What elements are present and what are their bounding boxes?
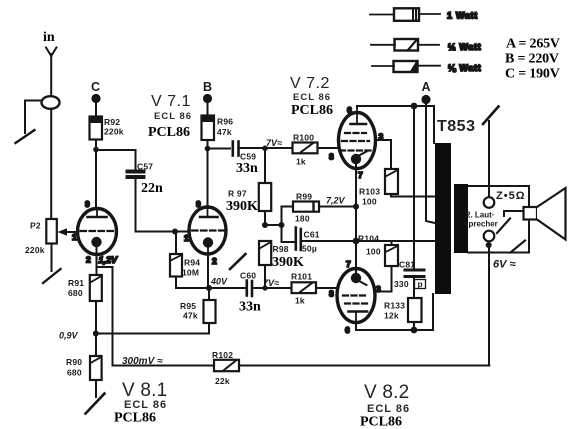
wire speaker contact stub	[504, 211, 524, 216]
junction R97/R98 node	[262, 222, 268, 228]
wire V8.1 cathode node	[96, 255, 98, 276]
switch arm (speaker bottom)	[511, 241, 526, 253]
pentode V7.2	[339, 107, 376, 169]
resistor R98	[259, 241, 271, 288]
resistor R102	[214, 360, 239, 371]
wire R90 to ground	[95, 380, 97, 397]
legend resistor 1/2 Watt	[371, 39, 439, 51]
resistor R95	[204, 288, 216, 334]
wire junction to C59	[208, 148, 231, 150]
svg-text:R99: R99	[296, 192, 312, 202]
svg-text:2: 2	[212, 256, 217, 266]
wire R96 to V7.1 anode	[207, 140, 209, 208]
wire A centre tap	[426, 103, 435, 223]
svg-text:R96: R96	[217, 117, 233, 127]
wire C60 to R101	[253, 287, 292, 289]
junction R98 rail node	[262, 285, 267, 290]
switch arm (speaker top)	[497, 219, 510, 234]
wire R101 to V8.2 pin 8	[316, 287, 338, 289]
capacitor C59	[233, 142, 239, 156]
capacitor C61	[282, 225, 357, 250]
speaker	[524, 188, 566, 240]
wire node C to R92	[95, 102, 97, 117]
svg-text:180: 180	[295, 214, 310, 224]
wire R102 to secondary feedback	[239, 365, 489, 367]
svg-text:C = 190V: C = 190V	[505, 67, 560, 82]
svg-text:47k: 47k	[183, 311, 198, 321]
svg-text:R101: R101	[291, 272, 312, 282]
wire speaker box right top	[528, 186, 530, 208]
wire V7.2 cathode chain	[355, 169, 357, 270]
resistor R103	[385, 169, 398, 194]
svg-text:C61: C61	[304, 230, 320, 240]
wire secondary top to terminal	[468, 186, 489, 197]
resistor R92	[90, 117, 103, 140]
svg-text:ECL 86: ECL 86	[367, 403, 410, 415]
switch (output top)	[483, 107, 499, 187]
svg-text:½ Watt: ½ Watt	[448, 42, 481, 52]
svg-text:C81: C81	[399, 260, 415, 270]
wire node to R99/C61 branch	[265, 224, 282, 226]
svg-text:9: 9	[196, 199, 201, 209]
svg-text:330: 330	[394, 279, 409, 289]
svg-text:B: B	[203, 80, 212, 94]
junction V7.1 cathode rail	[206, 285, 212, 291]
triode V8.1	[78, 209, 117, 255]
terminal 2. Lautsprecher	[484, 231, 495, 242]
svg-text:100: 100	[362, 197, 377, 207]
svg-text:1k: 1k	[295, 296, 305, 306]
svg-text:C57: C57	[137, 162, 153, 172]
svg-text:22k: 22k	[215, 376, 230, 386]
node B	[203, 94, 212, 103]
wire junction to C57	[96, 150, 136, 170]
junction R97 top node	[262, 146, 268, 152]
svg-text:R92: R92	[104, 117, 120, 127]
svg-text:9: 9	[85, 199, 90, 209]
svg-text:A = 265V: A = 265V	[506, 37, 560, 52]
svg-text:680: 680	[67, 368, 82, 378]
svg-text:R95: R95	[180, 301, 196, 311]
resistor R133	[408, 298, 422, 330]
svg-text:0,9V: 0,9V	[59, 331, 79, 341]
svg-text:6: 6	[347, 105, 352, 115]
ground (R90)	[86, 394, 105, 414]
svg-text:10M: 10M	[182, 268, 199, 278]
wire V7.2 pin3 to R103	[376, 140, 392, 169]
junction below R92	[93, 147, 99, 153]
capacitor C60	[247, 281, 252, 297]
junction 7,2V node	[353, 204, 359, 210]
svg-text:1,2V: 1,2V	[99, 255, 119, 265]
svg-text:PCL86: PCL86	[114, 411, 156, 426]
svg-text:C59: C59	[240, 152, 256, 162]
svg-text:PCL86: PCL86	[148, 125, 190, 140]
wire speaker box right bottom	[528, 220, 530, 253]
svg-text:V 8.2: V 8.2	[364, 382, 409, 403]
wire C81 branch	[413, 106, 415, 269]
svg-text:Z•5Ω: Z•5Ω	[496, 190, 526, 202]
svg-text:sprecher: sprecher	[464, 220, 498, 229]
svg-text:V 8.1: V 8.1	[122, 380, 167, 401]
svg-text:8: 8	[329, 289, 334, 299]
wire R104 to V8.2 pin 3	[375, 266, 392, 292]
svg-text:1: 1	[184, 233, 189, 243]
svg-text:7: 7	[346, 259, 351, 269]
svg-text:1 Watt: 1 Watt	[447, 11, 478, 21]
capacitor C57	[126, 170, 146, 180]
capacitor C81	[405, 270, 424, 298]
legend resistor 1/8 Watt	[372, 61, 440, 72]
junction R133 bottom node	[411, 327, 418, 334]
svg-text:40V: 40V	[210, 277, 228, 287]
resistor R94	[170, 232, 182, 277]
wire feedback drop	[488, 253, 490, 366]
svg-text:PCL86: PCL86	[291, 103, 333, 118]
svg-text:390K: 390K	[226, 199, 258, 214]
legend resistor 1 Watt	[370, 8, 440, 20]
svg-text:8: 8	[329, 152, 334, 162]
svg-text:33n: 33n	[236, 161, 258, 176]
svg-text:7: 7	[358, 170, 363, 180]
svg-text:V 7.1: V 7.1	[151, 93, 191, 110]
node C	[91, 94, 100, 103]
wire 0,9V node to R95	[96, 333, 209, 335]
wire P2 bottom	[51, 244, 53, 272]
transformer T853 primary	[435, 143, 451, 294]
svg-text:6: 6	[345, 325, 350, 335]
wire jack sleeve	[25, 101, 42, 134]
svg-text:390K: 390K	[272, 255, 304, 270]
svg-text:47k: 47k	[217, 127, 232, 137]
junction branch node	[279, 222, 285, 228]
svg-text:R104: R104	[358, 234, 379, 244]
svg-text:1k: 1k	[296, 157, 306, 167]
svg-text:220k: 220k	[25, 245, 45, 255]
svg-text:2. Laut·: 2. Laut·	[466, 211, 494, 220]
svg-text:R91: R91	[68, 278, 84, 288]
wire C61 node to primary tap (R104 top)	[356, 240, 435, 242]
svg-text:33n: 33n	[239, 300, 261, 315]
resistor R91	[90, 275, 102, 301]
resistor R104	[385, 241, 398, 266]
svg-text:⅛ Watt: ⅛ Watt	[448, 63, 481, 73]
svg-text:50µ: 50µ	[302, 244, 317, 254]
ground (P2)	[43, 269, 61, 283]
wire V8.2 anode to primary bottom	[356, 294, 433, 330]
jack input socket	[42, 96, 60, 109]
svg-text:V 7.2: V 7.2	[290, 75, 330, 92]
ground slash near 40V	[230, 254, 246, 269]
resistor R99	[282, 202, 357, 226]
wire R91 to R90	[95, 301, 97, 356]
junction 0,9V node	[93, 331, 99, 337]
svg-text:R102: R102	[212, 350, 233, 360]
svg-text:3: 3	[376, 284, 381, 294]
svg-text:7V≈: 7V≈	[266, 138, 282, 148]
wire R94 to 40V rail	[176, 277, 209, 289]
svg-text:22n: 22n	[141, 181, 163, 196]
svg-text:7V≈: 7V≈	[263, 278, 279, 288]
svg-text:in: in	[43, 30, 55, 45]
wire R103 to primary tap	[391, 194, 435, 197]
wire grid node to V7.1 pin 1	[175, 231, 190, 233]
svg-text:R90: R90	[66, 357, 82, 367]
value p (C81)	[415, 279, 426, 289]
svg-text:B = 220V: B = 220V	[505, 52, 559, 67]
svg-text:680: 680	[68, 288, 83, 298]
svg-text:R98: R98	[273, 244, 289, 254]
junction C81 top node	[411, 103, 418, 110]
node A	[421, 95, 430, 104]
svg-text:R100: R100	[293, 133, 314, 143]
wire anode rail V7.2 to transformer	[357, 106, 434, 143]
svg-text:C: C	[91, 80, 100, 94]
terminal Z 5ohm	[484, 197, 495, 208]
svg-text:PCL86: PCL86	[360, 415, 402, 429]
svg-text:A: A	[422, 80, 431, 94]
wire R92 to V8.1 anode	[95, 140, 97, 210]
svg-text:300mV ≈: 300mV ≈	[122, 356, 163, 367]
svg-text:ECL 86: ECL 86	[293, 92, 331, 103]
svg-text:R133: R133	[384, 301, 405, 311]
potentiometer P2	[46, 219, 77, 244]
wire input lead-in	[46, 48, 56, 97]
junction cathode/C61 node	[353, 238, 360, 245]
wire 40V rail	[209, 287, 245, 289]
svg-text:12k: 12k	[384, 311, 399, 321]
wire jack tip to P2	[50, 109, 52, 219]
svg-text:2: 2	[86, 255, 91, 265]
wire terminal bottom stub	[488, 242, 490, 253]
pentode V8.2	[337, 269, 375, 323]
svg-text:ECL 86: ECL 86	[124, 399, 167, 411]
wire R100 to V7.2 pin 8	[318, 147, 341, 149]
resistor R101	[292, 282, 317, 293]
ground (input sleeve)	[16, 130, 35, 143]
wire secondary top extension	[489, 185, 529, 187]
svg-text:R103: R103	[359, 187, 380, 197]
wire feedback from cathode to R102	[97, 267, 215, 366]
resistor R96	[202, 116, 215, 141]
svg-text:C60: C60	[240, 271, 256, 281]
svg-text:1: 1	[72, 232, 77, 242]
svg-text:6V ≈: 6V ≈	[493, 259, 516, 271]
svg-text:p: p	[418, 279, 423, 289]
svg-text:P2: P2	[30, 221, 41, 231]
wire C59 to R100	[240, 147, 292, 149]
wire V7.1 cathode to rail	[207, 254, 209, 288]
wire C57 to V7.1 grid	[136, 179, 175, 232]
wire node B to R96	[207, 102, 209, 116]
junction below terminal	[486, 242, 492, 248]
svg-text:T853: T853	[437, 118, 475, 135]
svg-text:ECL 86: ECL 86	[154, 111, 192, 122]
wire secondary bottom	[468, 252, 529, 254]
resistor R90	[90, 356, 102, 380]
svg-text:R94: R94	[184, 258, 200, 268]
resistor R100	[293, 143, 318, 154]
svg-text:100: 100	[366, 247, 381, 257]
transformer T853 secondary	[454, 184, 468, 253]
svg-text:7,2V: 7,2V	[326, 196, 346, 206]
triode V7.1	[189, 207, 226, 254]
junction below R96	[205, 146, 211, 152]
resistor R97	[259, 149, 271, 225]
junction V7.1 grid node	[172, 229, 178, 235]
svg-text:R 97: R 97	[228, 189, 247, 199]
svg-text:220k: 220k	[104, 127, 124, 137]
